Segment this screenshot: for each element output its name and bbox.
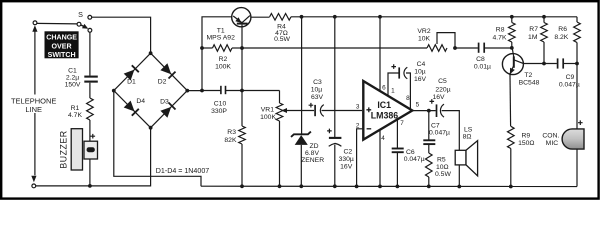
svg-text:VR1: VR1 [261,107,274,114]
svg-text:R1: R1 [71,105,80,112]
svg-text:8Ω: 8Ω [463,133,472,140]
svg-text:D4: D4 [136,98,145,105]
resistor R5 [428,144,430,153]
capacitor C5 [436,104,438,117]
svg-text:C9: C9 [566,74,575,81]
svg-text:R3: R3 [227,129,236,136]
wire: buzzer to bottom rail [89,159,91,186]
svg-text:16V: 16V [340,163,353,170]
svg-text:MPS A92: MPS A92 [207,34,236,41]
label: TELEPHONE LINE [11,95,57,115]
svg-text:C8: C8 [476,56,485,63]
capacitor C4 [388,73,399,96]
svg-text:SWITCH: SWITCH [48,51,76,59]
svg-text:150V: 150V [65,82,81,89]
wire: T1 base to R2 node [241,25,243,48]
svg-text:C4: C4 [417,61,426,68]
op-amp IC1 LM386 [363,81,412,140]
svg-text:T1: T1 [217,27,225,34]
diode D1 [114,53,151,90]
bridge vertex junctions [149,51,153,55]
svg-text:2.2µ: 2.2µ [66,75,79,82]
wire: pin 5 output [412,110,436,112]
svg-text:R8: R8 [496,27,505,34]
svg-text:0.5W: 0.5W [274,36,290,43]
wire: top supply rail [291,16,577,18]
wire: pin 6 to supply rail [379,17,381,91]
resistor R7 [543,17,545,23]
svg-text:220µ: 220µ [435,86,450,93]
wire: top terminal to switch pole [37,22,77,25]
svg-text:4.7K: 4.7K [68,112,82,119]
svg-text:D2: D2 [158,79,167,86]
potentiometer VR1 [279,91,281,104]
svg-text:7: 7 [400,120,404,127]
wire: R1 to buzzer [89,120,91,142]
svg-text:330µ: 330µ [339,156,354,163]
wire: speaker to ground [458,165,460,187]
wire: switch top contact to bridge top vertex [92,17,151,53]
wire: bridge negative output to ground rail [114,91,201,187]
svg-text:1M: 1M [528,34,538,41]
transistor T2 [502,54,523,75]
svg-text:R6: R6 [558,26,567,33]
diode D4 [114,91,151,128]
resistor R9 [509,75,512,127]
buzzer [71,129,82,170]
capacitor C2 [334,17,336,138]
svg-text:C5: C5 [438,78,447,85]
wire: ground rail [201,185,577,187]
wire: C1 to R1 [89,83,91,98]
node: telephone line bottom terminal [31,176,36,183]
svg-text:0.01µ: 0.01µ [474,64,491,71]
condenser mic CON MIC [576,64,578,129]
svg-text:OVER: OVER [52,42,72,50]
wire: pin 2 to ground [357,129,364,187]
svg-text:LINE: LINE [25,105,42,114]
capacitor C1 [84,76,98,78]
svg-text:R2: R2 [219,56,228,63]
resistor R1 [87,98,94,120]
svg-text:8: 8 [406,95,410,102]
potentiometer VR2 [427,45,447,52]
svg-text:D1-D4 = 1N4007: D1-D4 = 1N4007 [156,167,209,175]
wire: left telephone line vertical [34,113,36,175]
svg-text:R9: R9 [522,132,531,139]
svg-text:CON.: CON. [542,132,559,139]
svg-text:R7: R7 [529,26,538,33]
svg-text:4.7K: 4.7K [493,34,507,41]
diode D2 [151,53,188,90]
wire: T2 collector line [523,63,557,65]
svg-text:1: 1 [391,88,395,95]
node: telephone line top terminal [33,21,37,25]
wire: bottom rail left segment [36,128,151,186]
wire: base bias line to VR2 [242,47,427,49]
svg-text:C2: C2 [343,149,352,156]
capacitor C10 [202,90,221,92]
wire: VR2 to C8 [455,47,478,49]
wire: pin 4 to ground [379,129,381,186]
svg-text:10µ: 10µ [311,87,323,94]
zener diode ZD [301,17,303,135]
svg-text:82K: 82K [224,137,237,144]
svg-text:10K: 10K [418,36,431,43]
wire: C5 to speaker [442,111,460,151]
svg-text:8.2K: 8.2K [554,34,568,41]
svg-text:LS: LS [464,126,473,133]
svg-text:MIC: MIC [546,140,559,147]
svg-text:0.047µ: 0.047µ [429,129,450,136]
svg-text:3: 3 [356,104,360,111]
svg-text:D3: D3 [160,99,169,106]
svg-text:ZENER: ZENER [301,157,324,164]
wire: VR1 wiper to C3 [284,110,314,112]
svg-text:10Ω: 10Ω [436,164,449,171]
capacitor C8 [478,43,480,53]
svg-text:D1: D1 [127,78,136,85]
svg-text:0.5W: 0.5W [435,171,451,178]
svg-text:LM386: LM386 [371,110,398,120]
svg-text:C6: C6 [406,149,415,156]
svg-text:5: 5 [416,101,420,108]
resistor R6 [576,17,578,22]
svg-text:C3: C3 [313,79,322,86]
capacitor C6 [396,119,398,148]
svg-text:16V: 16V [414,76,427,83]
wire: C3 to pin3 [322,110,363,112]
svg-text:T2: T2 [524,72,532,79]
svg-text:R5: R5 [437,156,446,163]
svg-text:BUZZER: BUZZER [59,130,69,168]
wire: bridge positive vertical [187,17,231,91]
svg-text:ZD: ZD [309,143,318,150]
svg-text:IC1: IC1 [377,100,391,110]
capacitor C7 [428,111,430,140]
diode D3 [151,91,188,128]
svg-text:CHANGE: CHANGE [46,33,77,41]
svg-text:100K: 100K [215,63,231,70]
svg-text:VR2: VR2 [417,28,430,35]
svg-text:S: S [78,10,83,19]
svg-text:330P: 330P [211,108,227,115]
svg-text:150Ω: 150Ω [518,140,534,147]
speaker LS [455,150,466,165]
svg-text:100K: 100K [260,114,276,121]
resistor R3 [241,48,243,126]
resistor R4 [270,14,291,21]
svg-text:C10: C10 [214,100,227,107]
svg-text:C1: C1 [68,68,77,75]
svg-text:63V: 63V [311,94,324,101]
resistor R2 [202,47,213,49]
svg-text:6.8V: 6.8V [305,150,319,157]
label: CHANGE OVER SWITCH [45,31,79,58]
transistor T1 [232,8,251,27]
svg-text:0.047µ: 0.047µ [404,156,425,163]
svg-text:6: 6 [382,85,386,92]
svg-text:10µ: 10µ [414,69,426,76]
wire: switch bottom contact down to C1 [89,32,91,75]
capacitor C9 [557,58,559,68]
svg-text:BC548: BC548 [519,79,540,86]
resistor R8 [511,17,513,23]
svg-text:16V: 16V [432,94,445,101]
svg-text:4: 4 [381,135,385,142]
capacitor C3 [314,105,316,116]
